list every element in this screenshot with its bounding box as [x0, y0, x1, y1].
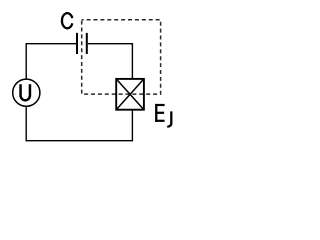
Josephson junction box	[116, 79, 144, 110]
wire: top horizontal to capacitor left plate	[26, 43, 77, 45]
wire: left vertical upper (top-left corner down to source)	[25, 44, 27, 79]
wire: capacitor right plate to corner, down to junction top	[88, 44, 132, 79]
capacitor C right plate	[86, 33, 88, 54]
label J subscript (glyph drawn as path)	[167, 111, 171, 126]
wire: bottom horizontal rail	[26, 140, 133, 142]
capacitor C left plate	[76, 33, 78, 54]
junction X diagonal 2	[116, 79, 144, 110]
label E (glyph drawn as path)	[155, 104, 164, 122]
label C (glyph drawn as path)	[62, 13, 72, 28]
wire: left vertical lower (bottom rail up to source)	[25, 106, 27, 141]
junction X diagonal 1	[116, 79, 144, 110]
voltage source U (circle)	[13, 79, 40, 106]
wire: junction bottom down to bottom rail	[131, 110, 133, 141]
label U (bold glyph drawn as path)	[21, 84, 30, 100]
dashed island box (Cooper-pair box outline)	[82, 20, 161, 94]
